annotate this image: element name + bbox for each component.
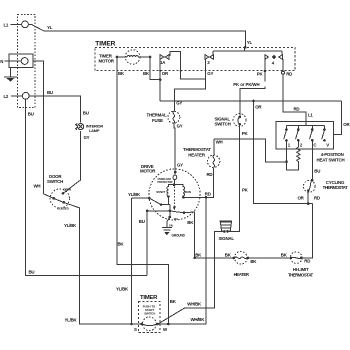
terminal block	[18, 14, 35, 107]
svg-text:HEAT SWITCH: HEAT SWITCH	[317, 158, 345, 163]
wire BK timer motor left down to start switch W	[117, 57, 177, 324]
svg-text:GY: GY	[176, 100, 182, 105]
wire GY thermal fuse to motor	[174, 123, 183, 172]
ground (power cord)	[4, 68, 17, 82]
terminal N	[0, 54, 33, 68]
svg-text:YL/BK: YL/BK	[128, 192, 141, 197]
wire GY lamp to door switch open contact	[63, 131, 90, 194]
svg-text:BU: BU	[314, 169, 320, 174]
wire OR from junction down to cycling thermostat	[254, 101, 313, 204]
wire WH/BK buzzer to start switch W	[158, 232, 224, 324]
wire RD cam 4 right to heat switch	[282, 59, 307, 126]
svg-text:4-POSITION: 4-POSITION	[321, 152, 344, 157]
thermostat heater	[183, 139, 220, 168]
svg-text:YL/BK: YL/BK	[65, 318, 78, 323]
wire YL from L1	[28, 24, 252, 48]
svg-text:YL/BK: YL/BK	[116, 287, 129, 292]
wire BK motor to heater	[184, 212, 202, 259]
svg-text:HEATER: HEATER	[188, 153, 206, 158]
wire OR right end down to heat switch box	[334, 101, 350, 134]
svg-text:GROUND: GROUND	[172, 234, 186, 238]
centrifugal actuator	[173, 187, 176, 211]
svg-text:HEATER: HEATER	[234, 272, 250, 277]
svg-text:SIGNAL: SIGNAL	[219, 236, 235, 241]
wire RD cycling thermostat to hi-limit	[301, 191, 320, 258]
wire YL/BK motor contact down to S	[116, 198, 131, 324]
wire BU motor to L2	[139, 211, 147, 276]
wire BU heat switch C to cycling thermostat	[312, 140, 320, 179]
svg-text:OPEN: OPEN	[63, 187, 71, 191]
svg-text:PROTECTOR: PROTECTOR	[158, 180, 173, 184]
svg-text:RD: RD	[304, 258, 310, 263]
svg-text:BU: BU	[47, 90, 53, 95]
svg-text:THERMOSTAT: THERMOSTAT	[323, 185, 349, 190]
svg-text:TIMER: TIMER	[95, 40, 115, 47]
heater	[195, 251, 258, 276]
signal buzzer	[219, 221, 235, 241]
cycling thermostat	[303, 179, 348, 192]
svg-text:OR: OR	[343, 122, 350, 127]
wire BU from L2 to interior lamp	[29, 90, 89, 122]
wire YL feed to cams 3 and 4	[213, 47, 282, 55]
heat switch poles 1,2,C,V	[284, 126, 330, 148]
svg-text:MOTOR: MOTOR	[99, 59, 115, 64]
drive motor	[140, 164, 200, 220]
timer (top)	[95, 40, 295, 70]
wire WH from N to door switch	[33, 61, 54, 198]
wire WH/BK motor run junction down to start switch W	[157, 196, 207, 325]
svg-text:TIMER: TIMER	[140, 295, 158, 301]
svg-text:PK or PK/WH: PK or PK/WH	[233, 82, 259, 87]
svg-text:WH/BK: WH/BK	[187, 302, 202, 307]
door switch	[47, 174, 71, 210]
signal switch	[215, 114, 247, 127]
wire BK heater to hi-limit	[248, 253, 291, 258]
svg-text:L1: L1	[308, 112, 313, 117]
wire WH thermostat heater to heat switch 1	[214, 139, 287, 162]
thermal fuse	[147, 111, 180, 123]
hi-limit thermostat	[288, 252, 314, 278]
svg-text:THERMOSTAT: THERMOSTAT	[183, 147, 211, 152]
svg-text:RD: RD	[294, 107, 300, 112]
svg-text:V: V	[326, 142, 329, 147]
svg-text:BU: BU	[139, 219, 145, 224]
wire GY cam 3 left to thermal fuse	[174, 59, 213, 112]
svg-text:RD: RD	[286, 72, 292, 77]
svg-text:LAMP: LAMP	[89, 128, 100, 133]
svg-text:RD: RD	[207, 172, 213, 177]
svg-text:S: S	[134, 327, 137, 332]
svg-text:THERMOSTAT: THERMOSTAT	[288, 272, 314, 277]
svg-text:SWITCH: SWITCH	[144, 311, 155, 315]
svg-text:WH: WH	[174, 218, 178, 221]
centrifugal switch upper	[149, 197, 169, 211]
svg-text:SWITCH: SWITCH	[215, 122, 231, 127]
timer cam switch 1A	[160, 55, 169, 65]
svg-text:GN: GN	[169, 224, 173, 228]
svg-text:BU: BU	[29, 270, 35, 275]
svg-text:YL: YL	[247, 40, 253, 45]
terminal L1	[4, 21, 29, 28]
svg-text:RUN: RUN	[185, 190, 191, 194]
svg-text:GY: GY	[177, 162, 183, 167]
centrifugal switch lower	[146, 210, 186, 221]
svg-text:SWITCH: SWITCH	[47, 179, 63, 184]
wire RD thermostat heater to motor run	[183, 167, 213, 197]
overload protector	[158, 171, 177, 185]
svg-text:CLOSED: CLOSED	[57, 206, 69, 210]
svg-text:FUSE: FUSE	[152, 118, 163, 123]
svg-text:WH: WH	[34, 184, 41, 189]
motor ground	[162, 211, 186, 238]
wire BU from L2 down to motor	[26, 99, 147, 275]
svg-text:N: N	[0, 59, 3, 64]
timer cam switch 4	[265, 55, 282, 66]
svg-text:GY: GY	[207, 71, 213, 76]
svg-text:WH/BK: WH/BK	[191, 317, 206, 322]
svg-text:OR: OR	[255, 105, 262, 110]
svg-text:GY: GY	[84, 135, 90, 140]
svg-text:YL: YL	[47, 25, 53, 30]
svg-text:RD: RD	[205, 192, 211, 197]
heat switch terminal 1 wire	[285, 140, 298, 170]
motor windings	[156, 183, 191, 198]
terminal L2	[4, 92, 30, 99]
svg-text:START: START	[156, 190, 165, 194]
resistor under terminal 2	[297, 140, 300, 163]
timer (bottom) push-to-start	[134, 295, 168, 333]
interior lamp	[76, 123, 104, 132]
wire OR cam 1A left contact	[159, 59, 169, 101]
svg-text:GY: GY	[177, 124, 183, 129]
wire PK signal switch to buzzer	[228, 124, 249, 232]
long wire OR (y=101)	[160, 100, 342, 103]
svg-text:BU: BU	[83, 111, 89, 116]
svg-text:BU: BU	[28, 112, 34, 117]
svg-text:MOTOR: MOTOR	[140, 169, 156, 174]
timer motor	[116, 50, 152, 65]
svg-text:OR: OR	[298, 196, 305, 201]
wire PK cam 4 left to signal switch	[233, 59, 266, 117]
timer cam switch 3	[205, 55, 213, 65]
svg-text:YL/BK: YL/BK	[64, 223, 77, 228]
wire YL/BK into motor start contact	[128, 192, 151, 200]
wire cam 1A right to cam 3 left	[169, 51, 206, 78]
svg-text:WH: WH	[216, 139, 223, 144]
4-position heat switch	[276, 112, 345, 162]
svg-text:OR: OR	[162, 71, 169, 76]
wire BK timer motor right to cam 1A	[143, 57, 161, 81]
svg-text:L1: L1	[4, 23, 9, 28]
svg-text:RD: RD	[314, 196, 320, 201]
wire YL/BK door switch to start switch S	[64, 202, 142, 325]
svg-text:L2: L2	[4, 94, 9, 99]
